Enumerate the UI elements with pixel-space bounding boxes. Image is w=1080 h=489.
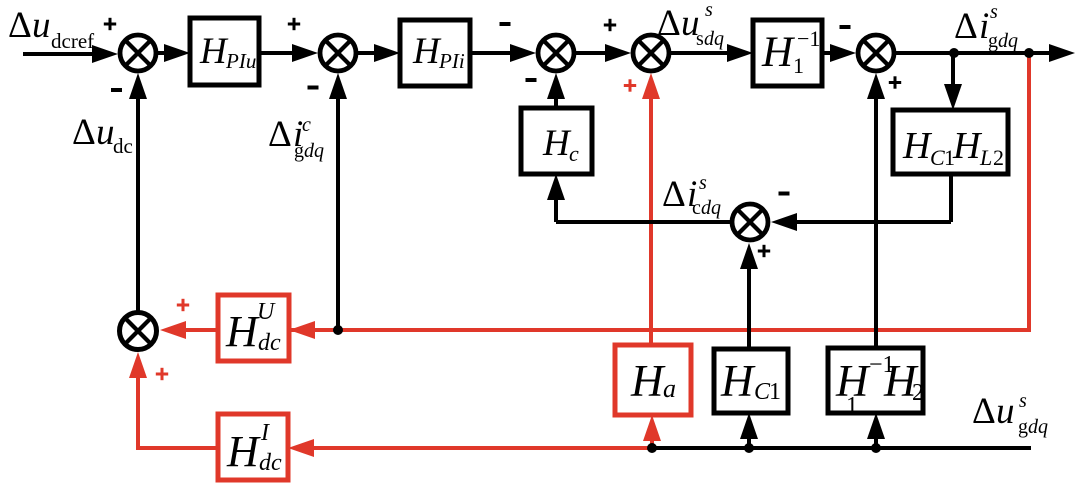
svg-text:U: U: [257, 299, 276, 325]
svg-text:g: g: [1018, 416, 1028, 438]
svg-text:s: s: [705, 0, 713, 21]
svg-text:H: H: [952, 125, 983, 167]
svg-text:H: H: [225, 307, 260, 356]
svg-text:u: u: [32, 5, 51, 46]
svg-text:u: u: [96, 112, 115, 153]
svg-text:dc: dc: [259, 450, 282, 476]
svg-text:1: 1: [793, 53, 804, 78]
svg-text:a: a: [663, 374, 676, 403]
svg-text:s: s: [699, 172, 707, 194]
svg-text:dq: dq: [1028, 416, 1048, 438]
svg-text:H: H: [199, 31, 229, 72]
svg-text:2: 2: [993, 145, 1004, 170]
svg-text:H: H: [761, 29, 795, 76]
svg-text:Δ: Δ: [657, 3, 681, 44]
svg-text:dq: dq: [304, 140, 324, 162]
svg-text:c: c: [569, 141, 579, 166]
svg-text:PIi: PIi: [438, 49, 465, 73]
svg-text:dcref: dcref: [51, 29, 94, 53]
svg-text:PIu: PIu: [225, 49, 256, 73]
svg-text:C: C: [930, 145, 945, 170]
svg-text:c: c: [692, 197, 701, 219]
svg-text:g: g: [988, 30, 998, 52]
svg-text:c: c: [302, 114, 311, 136]
svg-text:Δ: Δ: [8, 5, 32, 46]
svg-text:dq: dq: [701, 197, 721, 219]
svg-text:L: L: [979, 145, 992, 170]
svg-text:g: g: [294, 140, 304, 162]
svg-text:dc: dc: [113, 134, 133, 158]
svg-text:H: H: [720, 356, 756, 406]
svg-text:dq: dq: [998, 30, 1018, 52]
svg-text:Δ: Δ: [954, 6, 978, 47]
svg-text:I: I: [260, 420, 270, 446]
svg-text:Δ: Δ: [972, 391, 996, 432]
svg-text:H: H: [630, 356, 666, 406]
svg-text:u: u: [996, 391, 1015, 432]
svg-text:−1: −1: [797, 26, 820, 51]
svg-text:s: s: [1019, 390, 1027, 412]
svg-text:H: H: [902, 125, 933, 167]
svg-text:2: 2: [912, 380, 924, 406]
svg-text:s: s: [696, 28, 704, 50]
svg-text:Δ: Δ: [72, 112, 96, 153]
svg-text:dq: dq: [704, 28, 724, 50]
svg-text:s: s: [990, 1, 998, 23]
svg-text:1: 1: [846, 393, 858, 419]
svg-text:Δ: Δ: [662, 174, 686, 215]
svg-text:H: H: [226, 427, 261, 476]
svg-text:H: H: [542, 123, 572, 164]
svg-text:H: H: [412, 31, 442, 72]
svg-text:Δ: Δ: [268, 114, 292, 155]
svg-text:dc: dc: [258, 330, 281, 356]
svg-text:1: 1: [769, 379, 781, 405]
